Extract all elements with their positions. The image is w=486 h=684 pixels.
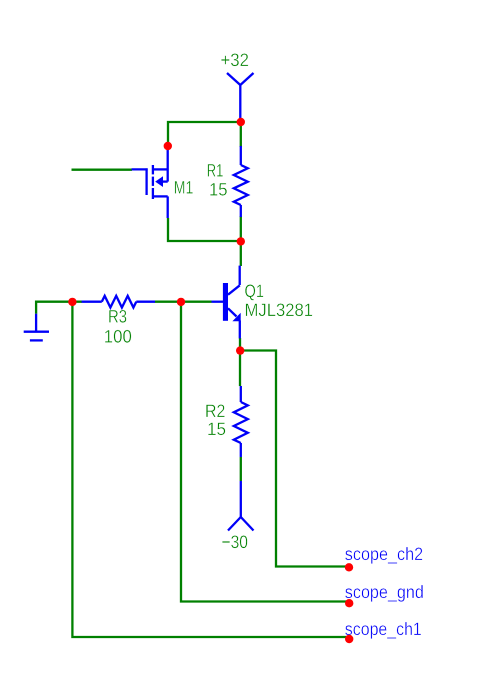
svg-text:15: 15: [209, 179, 228, 199]
power symbol -30: [228, 481, 254, 531]
wire node to Q1 collector: [240, 241, 242, 266]
svg-text:scope_ch1: scope_ch1: [345, 619, 422, 639]
junction dot scope_ch1: [345, 635, 353, 643]
svg-text:−30: −30: [222, 532, 249, 552]
wire scope_ch1 column: [72, 302, 349, 637]
junction dot scope_gnd: [345, 599, 353, 607]
svg-text:+32: +32: [221, 50, 250, 70]
wire M1 gate net: [72, 169, 133, 171]
wire net +32 rail horizontal to M1 drain: [168, 122, 241, 146]
junction dot R1 bottom node: [237, 237, 245, 245]
svg-text:scope_ch2: scope_ch2: [345, 544, 423, 564]
svg-text:M1: M1: [174, 177, 194, 197]
svg-text:100: 100: [104, 327, 132, 347]
junction dot scope_ch2: [345, 563, 353, 571]
wire R1 bottom pin to node: [240, 216, 242, 241]
junction dot R3 left node: [68, 298, 76, 306]
wire Q1 emitter to R2 top: [239, 338, 241, 386]
wire ground to R3 left: [36, 302, 82, 314]
wire scope_gnd column: [181, 302, 349, 602]
power symbol +32: [227, 73, 254, 122]
resistor R2: [234, 386, 248, 457]
junction dot R3 right node: [177, 298, 185, 306]
wire emitter node to scope_ch2: [240, 351, 349, 567]
resistor R1: [234, 146, 248, 217]
svg-text:MJL3281: MJL3281: [245, 300, 314, 320]
ground symbol: [24, 314, 49, 341]
junction dot M1 drain: [164, 142, 172, 150]
junction dot emitter node: [236, 346, 244, 354]
mosfet M1: [132, 149, 168, 218]
wire net +32 rail down to R1 top: [240, 122, 242, 147]
resistor R3: [82, 296, 155, 308]
svg-text:R3: R3: [108, 306, 127, 326]
svg-text:Q1: Q1: [245, 281, 265, 301]
junction dot +32 node: [237, 118, 245, 126]
wire M1 source to R1 bottom node: [168, 218, 241, 241]
svg-text:scope_gnd: scope_gnd: [345, 582, 424, 602]
transistor Q1: [212, 266, 241, 339]
wire R2 bottom to -30: [240, 457, 242, 481]
wire R3 right to Q1 base: [155, 301, 212, 303]
svg-text:R1: R1: [207, 161, 224, 181]
svg-text:15: 15: [207, 419, 226, 439]
svg-text:R2: R2: [205, 401, 225, 421]
